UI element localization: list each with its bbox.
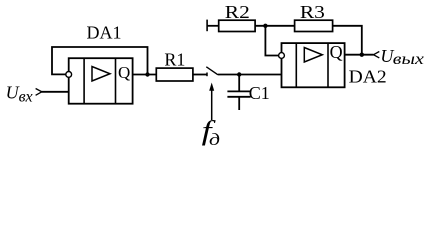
node junction DA1 feedback: [145, 72, 149, 76]
capacitor C1: [227, 75, 250, 111]
control arrow fd: [209, 83, 214, 121]
terminal stub left of R2: [207, 20, 219, 32]
op-amp U1 (DA1): [66, 58, 133, 103]
node Uvyx label: [380, 46, 423, 68]
wire R2/R3 node to DA2 inverting input: [265, 26, 278, 56]
input terminal chevron: [36, 89, 42, 96]
svg-text:д: д: [209, 130, 220, 149]
svg-text:Q: Q: [330, 42, 343, 62]
switch SW contact tick: [206, 73, 208, 77]
node C1 junction: [237, 72, 241, 76]
svg-text:DA1: DA1: [87, 22, 122, 42]
switch SW blade: [206, 67, 218, 75]
svg-text:R3: R3: [300, 2, 325, 22]
wire R3 to output node: [333, 26, 362, 55]
wire DA2 output: [345, 54, 374, 56]
svg-text:вх: вх: [19, 89, 33, 106]
svg-text:Q: Q: [118, 63, 130, 82]
wire DA1 feedback loop: [52, 47, 148, 75]
node junction R2/R3: [263, 24, 267, 28]
wire input Uvx: [42, 91, 69, 93]
node Uvx label: [6, 83, 33, 106]
wire R1 to switch: [193, 74, 207, 76]
resistor R3: [295, 20, 333, 31]
resistor R2: [219, 20, 255, 31]
svg-text:U: U: [6, 83, 20, 103]
wire R2 to R3: [255, 25, 295, 27]
output terminal chevron: [374, 52, 380, 58]
label fd: [202, 116, 221, 149]
svg-text:R1: R1: [164, 50, 185, 70]
svg-text:DA2: DA2: [349, 67, 387, 87]
svg-text:C1: C1: [249, 83, 270, 103]
node output junction: [360, 53, 364, 57]
svg-text:R2: R2: [225, 2, 250, 22]
resistor R1: [156, 68, 193, 81]
wire DA1 output to R1: [133, 74, 157, 76]
wire switch to DA2: [218, 74, 282, 76]
svg-text:вых: вых: [393, 51, 424, 68]
op-amp U2 (DA2): [279, 42, 345, 87]
